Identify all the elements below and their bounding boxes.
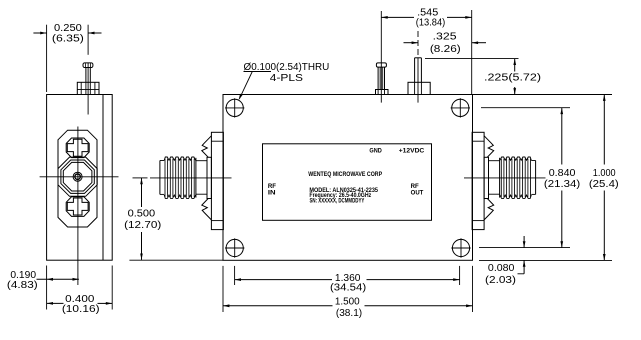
- svg-text:.225(5.72): .225(5.72): [484, 72, 541, 83]
- svg-text:SN: XXXXXX, DCMMDDYY: SN: XXXXXX, DCMMDDYY: [309, 198, 365, 205]
- svg-text:4-PLS: 4-PLS: [270, 73, 304, 84]
- side view feedthrough pin centerline / 0.250 extension: [87, 25, 89, 115]
- svg-text:(34.54): (34.54): [330, 283, 366, 294]
- svg-text:(2.03): (2.03): [485, 275, 516, 286]
- svg-text:0.840: 0.840: [549, 168, 576, 179]
- svg-text:0.080: 0.080: [488, 263, 515, 274]
- .545 right extension line (body edge extended up): [471, 10, 473, 95]
- screw hole top-left: [225, 98, 244, 117]
- svg-text:GND: GND: [369, 147, 381, 154]
- +12VDC feedthrough pin: [408, 58, 430, 95]
- side view bottom-right extension line: [111, 266, 113, 310]
- dimension 1.000 (25.4): [589, 95, 619, 261]
- svg-text:OUT: OUT: [411, 189, 424, 196]
- svg-text:+12VDC: +12VDC: [399, 147, 425, 154]
- side view top-face edge line: [102, 95, 104, 261]
- dimension 0.080 (2.03): [485, 236, 525, 286]
- dimension 1.500 (38.1): [223, 297, 473, 320]
- side view SMA connector end face (octagon nut): [58, 157, 97, 196]
- 1.000 top extension line (body top extended right): [473, 94, 613, 96]
- svg-text:WENTEQ MICROWAVE CORP: WENTEQ MICROWAVE CORP: [308, 171, 382, 178]
- svg-text:(6.35): (6.35): [52, 33, 84, 44]
- side view horizontal centerline: [40, 176, 119, 178]
- svg-text:(10.16): (10.16): [62, 304, 100, 315]
- 1.000 bottom extension line (body bottom extended right): [479, 259, 612, 261]
- side view top mounting screw: [66, 138, 89, 158]
- dimension 0.400 (10.16): [47, 294, 113, 315]
- dimension .545 (13.84): [381, 8, 471, 29]
- svg-text:1.000: 1.000: [593, 168, 616, 179]
- 1.360 left extension line: [234, 266, 236, 285]
- side view bottom-left extension line: [46, 266, 48, 310]
- dimension 0.840 (21.34): [544, 108, 580, 248]
- side view bottom mounting screw: [66, 197, 89, 217]
- label plate rectangle: [263, 144, 432, 221]
- side view connector flange outline: [58, 130, 97, 227]
- screw hole top-right: [451, 98, 470, 117]
- side view feedthrough pin: [77, 63, 99, 95]
- svg-text:1.500: 1.500: [335, 297, 360, 308]
- svg-text:.325: .325: [433, 32, 457, 43]
- 0.840 top extension line (screw center extended right): [481, 107, 570, 109]
- leader note Ø0.100(2.54)THRU 4-PLS: [239, 62, 330, 100]
- 1.500 left extension line: [222, 266, 224, 312]
- side view body outline: [47, 95, 113, 261]
- svg-text:(38.1): (38.1): [336, 308, 362, 319]
- svg-text:(13.84): (13.84): [416, 18, 446, 29]
- dimension 0.500 (12.70): [124, 178, 161, 260]
- svg-text:(8.26): (8.26): [430, 44, 461, 55]
- +12VDC pin centerline / .325 extension: [417, 31, 419, 103]
- 0.840 bottom extension line (screw center extended right): [479, 247, 570, 249]
- dim 0.250 left extension line: [46, 25, 48, 92]
- 1.360 right extension line: [459, 266, 461, 285]
- GND feedthrough pin: [376, 63, 389, 95]
- screw hole bottom-left: [225, 238, 244, 257]
- dimension .225 (5.72): [484, 59, 541, 95]
- svg-text:(4.83): (4.83): [7, 280, 38, 291]
- side view vertical centerline: [77, 127, 79, 286]
- svg-text:(25.4): (25.4): [589, 179, 619, 190]
- 1.500 right extension line: [472, 266, 474, 312]
- dimension 1.360 (34.54): [235, 273, 460, 294]
- dimension 0.190 (4.83): [7, 270, 79, 291]
- GND pin centerline / .545 extension: [380, 11, 382, 103]
- svg-text:(21.34): (21.34): [544, 179, 580, 190]
- main body outline: [223, 95, 473, 261]
- svg-text:IN: IN: [268, 189, 276, 196]
- 0.500 centerline extension stub: [133, 177, 148, 179]
- dimension .325 (8.26): [404, 32, 487, 56]
- RF output SMA connector (right, mirrored): [464, 132, 546, 229]
- svg-text:(12.70): (12.70): [124, 220, 161, 231]
- label plate text: [268, 147, 425, 204]
- svg-text:0.500: 0.500: [128, 209, 156, 220]
- .225 pin-top extension line: [425, 58, 519, 60]
- dimension 0.250 (6.35): [33, 23, 101, 44]
- screw hole bottom-right: [451, 238, 470, 257]
- main body bottom-left extension line: [129, 259, 223, 261]
